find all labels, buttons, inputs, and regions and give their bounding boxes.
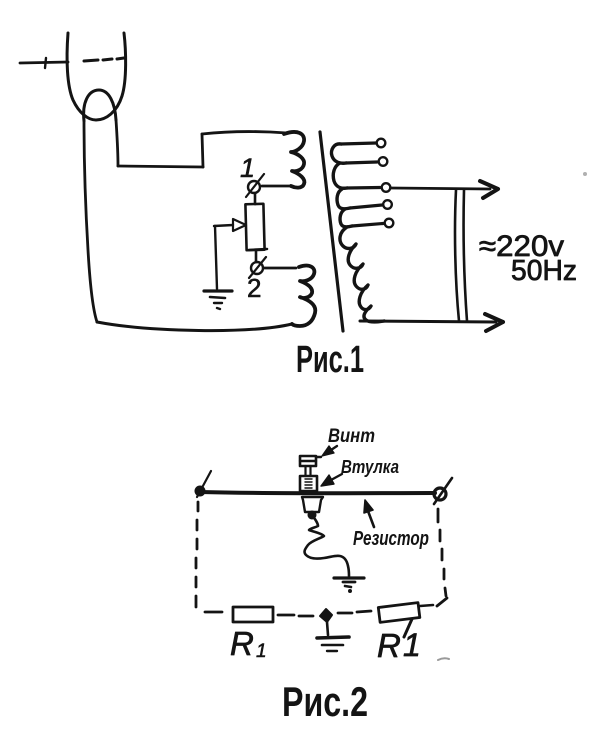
wire step vertical bbox=[202, 134, 203, 167]
secondary winding hairpin 3 bbox=[337, 189, 350, 209]
left terminal slash bbox=[197, 471, 211, 497]
wire terminal 2 to bottom coil bbox=[264, 267, 296, 270]
secondary tap lead 2 bbox=[346, 162, 377, 163]
bushing thread hatching bbox=[305, 479, 312, 488]
dashed wire bottom left bbox=[205, 611, 222, 614]
secondary winding lower scallops bbox=[340, 227, 384, 322]
slider contact dot bbox=[308, 511, 317, 520]
output wire top bbox=[391, 188, 490, 189]
anode lead tick bbox=[45, 58, 46, 68]
transformer core bbox=[320, 132, 343, 331]
resistor R1 bbox=[233, 607, 273, 622]
ground (pot wiper) bbox=[204, 289, 232, 292]
bushing (Втулка) bbox=[300, 476, 317, 491]
terminal 1 bbox=[248, 181, 260, 193]
potentiometer wiper arrow bbox=[214, 225, 233, 226]
output arrow bottom bbox=[485, 314, 503, 331]
anode lead dashed bbox=[84, 58, 124, 61]
svg-text:50Hz: 50Hz bbox=[511, 255, 577, 287]
terminal 2 bbox=[251, 262, 263, 274]
slider contact block bbox=[302, 497, 323, 512]
svg-text:2: 2 bbox=[247, 273, 261, 303]
transformer primary top winding bbox=[284, 132, 304, 188]
svg-text:Рис.1: Рис.1 bbox=[296, 339, 364, 381]
dashed wire bottom right of node bbox=[338, 611, 371, 613]
terminal 1 slash bbox=[246, 174, 264, 197]
svg-text:Рис.2: Рис.2 bbox=[282, 678, 368, 725]
dashed wire left vertical bbox=[196, 502, 198, 607]
label Винт arrow bbox=[328, 446, 337, 452]
secondary tap lead 4 bbox=[350, 205, 382, 208]
wire terminal1 to potentiometer bbox=[254, 193, 257, 204]
screw shaft bbox=[306, 466, 311, 476]
label Резистор arrow bbox=[368, 511, 374, 527]
svg-text:1: 1 bbox=[240, 153, 255, 183]
wire coil to terminal 1 bbox=[262, 185, 291, 188]
secondary winding hairpin 2 bbox=[333, 163, 347, 188]
svg-text:Винт: Винт bbox=[328, 426, 375, 447]
svg-text:1: 1 bbox=[256, 641, 267, 662]
node (center) bbox=[320, 609, 332, 622]
tap circle 1 bbox=[377, 139, 386, 148]
ground (center node) bbox=[317, 637, 349, 638]
transformer secondary winding hairpin 1 bbox=[331, 144, 346, 163]
right terminal slash bbox=[434, 478, 452, 504]
label Втулка arrow bbox=[331, 474, 342, 480]
stray pencil mark bbox=[438, 658, 449, 660]
screw head (Винт) bbox=[300, 456, 316, 466]
squiggle wire to ground bbox=[305, 515, 349, 576]
tube neck left wall / long left wire bbox=[84, 121, 97, 322]
wire potentiometer to terminal 2 bbox=[255, 250, 258, 262]
wiper wire down bbox=[215, 226, 217, 289]
ink speck bbox=[583, 172, 587, 176]
wire bottom long bbox=[97, 322, 292, 331]
svg-text:Резистор: Резистор bbox=[353, 528, 429, 550]
potentiometer body bbox=[245, 204, 264, 250]
svg-text:1: 1 bbox=[403, 627, 421, 663]
tap circle 5 bbox=[385, 219, 394, 228]
tube cathode loop bbox=[84, 90, 116, 121]
svg-text:R: R bbox=[377, 627, 401, 664]
secondary tap lead 1 bbox=[341, 143, 376, 144]
anode lead wire solid bbox=[20, 62, 68, 63]
wire neck to primary (bottom of step) bbox=[118, 166, 203, 167]
tap circle 2 bbox=[379, 157, 388, 166]
svg-text:R: R bbox=[230, 625, 254, 662]
dashed wire right vertical bbox=[437, 509, 447, 606]
output arrow top bbox=[480, 181, 498, 198]
output double line right bbox=[464, 190, 467, 321]
output wire bottom bbox=[360, 321, 496, 322]
dashed wire bottom middle bbox=[278, 615, 313, 616]
resistive rod (Резистор) bbox=[200, 492, 435, 493]
secondary tap lead 5 bbox=[352, 224, 383, 227]
secondary tap lead 3 bbox=[347, 186, 380, 190]
tap circle 3 bbox=[382, 183, 391, 192]
terminal 2 slash bbox=[249, 257, 266, 278]
transformer primary bottom winding bbox=[292, 266, 315, 326]
vacuum tube envelope bbox=[67, 33, 126, 120]
svg-text:Втулка: Втулка bbox=[341, 457, 399, 477]
tap circle 4 bbox=[383, 200, 392, 209]
ground (slider) bbox=[334, 576, 364, 579]
wire R'1 right lead bbox=[420, 605, 433, 606]
wire step top to coil bbox=[202, 132, 287, 134]
secondary winding hairpin 4 bbox=[340, 209, 352, 227]
right terminal circle bbox=[434, 488, 446, 500]
left terminal dot bbox=[195, 486, 206, 497]
resistor R'1 bbox=[378, 603, 420, 623]
output double line left bbox=[455, 190, 459, 321]
node wire down bbox=[327, 622, 328, 635]
tube neck right wall bbox=[116, 120, 118, 166]
